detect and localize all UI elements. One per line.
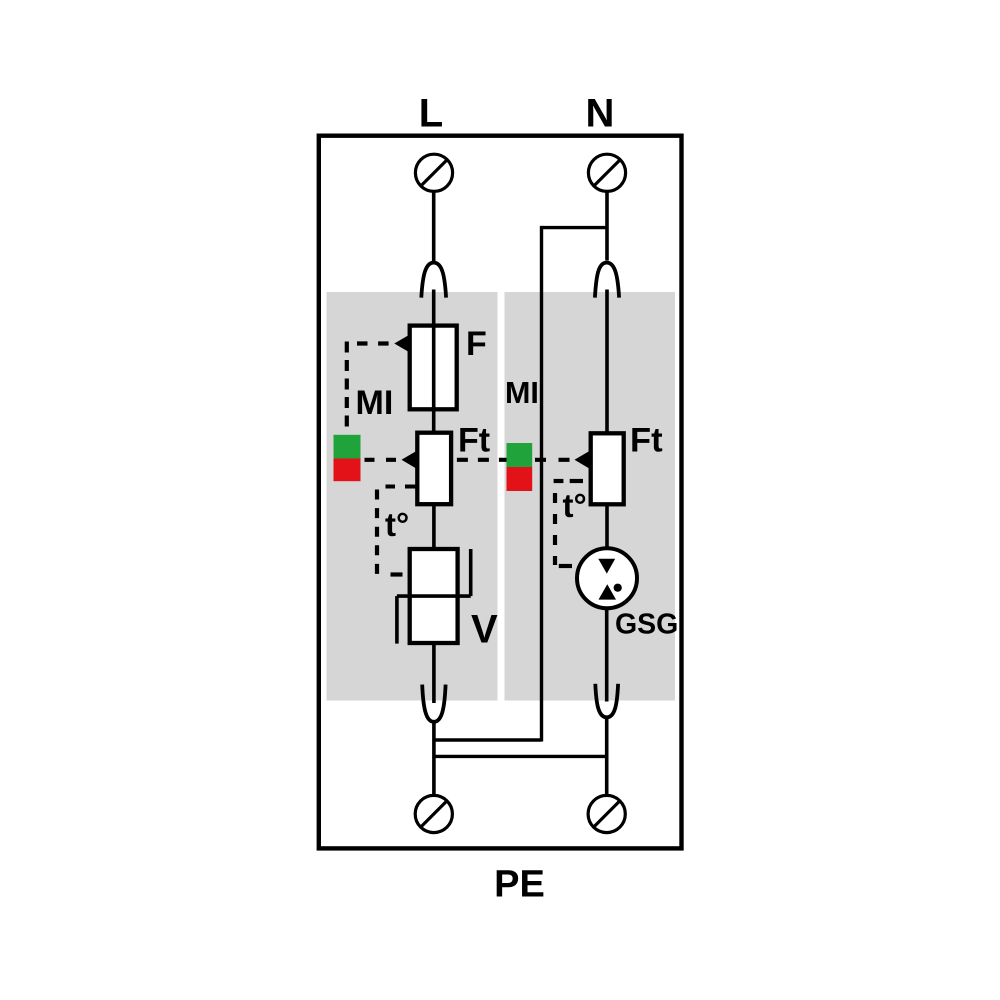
- label MI right: [505, 376, 539, 410]
- label Ft left: [458, 422, 490, 460]
- wire plug pin L down through fuse to Ft1: [432, 290, 436, 434]
- label t° left: [385, 506, 409, 543]
- svg-text:Ft: Ft: [458, 422, 490, 460]
- svg-text:MI: MI: [505, 376, 539, 410]
- thermal disconnector Ft1: [417, 433, 451, 505]
- label L: [419, 92, 443, 136]
- svg-text:F: F: [466, 325, 487, 363]
- indicator MI right red field: [507, 467, 533, 491]
- plug-in contact socket left (bottom): [422, 685, 445, 722]
- wire bottom contact to PE terminal right: [605, 717, 609, 795]
- MI arrow to fuse (dashed): [357, 334, 410, 353]
- label F: [466, 325, 487, 363]
- svg-text:t°: t°: [385, 506, 409, 543]
- indicator MI left green field: [334, 435, 361, 459]
- wire junction bar upper (to N bypass): [434, 738, 542, 741]
- MI dashed drop line left: [345, 342, 349, 428]
- wire Ft2 to GSG: [605, 504, 609, 550]
- wire varistor to bottom plug pin: [432, 643, 436, 703]
- t deg sensing bracket left (dashed): [377, 487, 417, 577]
- module shading left (base protection module): [327, 292, 498, 701]
- varistor V: [397, 549, 471, 644]
- terminal L (screw clamp): [415, 154, 452, 191]
- t deg sensing bracket right (dashed): [554, 481, 583, 566]
- svg-text:GSG: GSG: [615, 609, 678, 641]
- wire N terminal down: [605, 191, 609, 260]
- thermal disconnector Ft2: [591, 433, 624, 504]
- label Ft right: [630, 422, 663, 460]
- label t° right: [563, 487, 587, 524]
- fuse F: [410, 326, 457, 410]
- wire Ft1 to varistor: [432, 504, 436, 549]
- svg-text:L: L: [419, 92, 443, 136]
- svg-text:Ft: Ft: [630, 422, 663, 460]
- dashed link squares to Ft2 with arrow: [535, 451, 590, 470]
- terminal PE right (screw clamp): [588, 795, 625, 832]
- label V: [471, 608, 498, 652]
- wire GSG to bottom plug pin right: [605, 608, 609, 701]
- wire N bypass vertical: [540, 226, 543, 742]
- module shading right (N-PE module): [505, 292, 676, 701]
- dashed link Ft1 to right module: [457, 458, 507, 462]
- svg-text:t°: t°: [563, 487, 587, 524]
- gas discharge tube GSG: [577, 548, 637, 608]
- label N: [586, 92, 615, 136]
- enclosure frame: [319, 136, 682, 849]
- svg-text:N: N: [586, 92, 615, 136]
- plug-in contact socket N (top): [595, 263, 619, 298]
- node N branch tee: [542, 226, 608, 229]
- indicator MI left red field: [334, 459, 361, 482]
- label MI left: [356, 384, 394, 422]
- label GSG: [615, 609, 678, 641]
- svg-text:PE: PE: [494, 864, 545, 906]
- svg-text:MI: MI: [356, 384, 394, 422]
- label PE: [494, 864, 545, 906]
- wire L terminal to plug contact: [432, 191, 436, 261]
- terminal N (screw clamp): [588, 154, 625, 191]
- terminal PE left (screw clamp): [415, 795, 452, 832]
- plug-in contact socket L (top): [421, 263, 446, 298]
- svg-text:V: V: [471, 608, 498, 652]
- plug-in contact socket right (bottom): [595, 684, 618, 718]
- wire plug pin N down to Ft2: [605, 290, 609, 434]
- wire junction bar lower (to right leg): [434, 755, 607, 758]
- dashed link squares to Ft1 with arrow: [365, 451, 418, 470]
- indicator MI right green field: [507, 443, 533, 467]
- wire bottom contact to PE terminal left: [432, 722, 436, 796]
